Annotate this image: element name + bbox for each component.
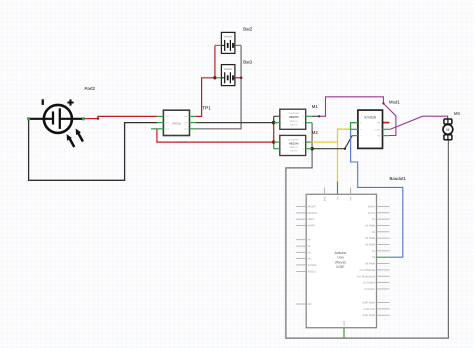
svg-text:M2: M2 <box>312 130 319 135</box>
svg-text:ICSP: ICSP <box>337 265 346 269</box>
Mod1 pin stubs (green) <box>351 123 391 136</box>
svg-text:D6 PWM: D6 PWM <box>365 244 375 247</box>
battery Bat2 <box>215 32 241 53</box>
svg-text:D5 PWM: D5 PWM <box>365 237 375 240</box>
svg-text:D12/MISO: D12/MISO <box>363 282 375 285</box>
bendpoint dot on red solar wire <box>97 117 99 119</box>
svg-text:GND: GND <box>343 320 346 326</box>
wire Bat2 left terminal down to junction (red) <box>214 45 216 77</box>
svg-text:VIN: VIN <box>349 196 352 200</box>
wire TP1 middle pin to M1 junction (dark gray) <box>196 122 274 124</box>
wire yellow junction down toward Arduino 5V (yellow) <box>337 142 339 181</box>
wire Arduino GND bottom pin to bottom bus (green) <box>343 328 345 338</box>
svg-text:(Rev3): (Rev3) <box>335 260 345 264</box>
module M1 <box>280 109 306 129</box>
svg-text:IOREF: IOREF <box>308 225 316 228</box>
svg-text:ICSP MISO: ICSP MISO <box>362 302 375 305</box>
solar cell terminals (green pins) <box>27 117 30 120</box>
vertical link M2 top-left to bottom-left pin (green) <box>273 142 275 149</box>
Arduino right pin rows <box>377 206 390 315</box>
svg-text:D13/SCK: D13/SCK <box>365 288 376 291</box>
wire M2 bottom-right junction to Mod1 bottom-left pin (black with diagonal) <box>312 136 352 149</box>
svg-text:NC: NC <box>377 122 381 125</box>
vertical link M1 top-left pin to junction (dark maroon) <box>273 116 275 122</box>
motor return net: M1 bottom-right down, around bottom, up to motor (gray) <box>286 123 449 338</box>
svg-text:Mod1: Mod1 <box>389 99 400 104</box>
svg-text:Arduino: Arduino <box>335 251 347 255</box>
wire Mod1 top-left pin link down to junction (green) <box>351 123 358 130</box>
svg-text:menu: menu <box>172 122 181 126</box>
wire Mod1 junction to Arduino D8 (blue) <box>351 129 403 257</box>
Arduino D8 pin stub (green, connected) <box>377 256 390 258</box>
svg-text:5B/3A S: 5B/3A S <box>289 120 298 123</box>
svg-text:1x6A 5v: 1x6A 5v <box>290 150 299 153</box>
wire solar-cell negative to TP1 pin (black) <box>29 120 158 181</box>
svg-text:D10 PWM/SS: D10 PWM/SS <box>360 269 376 272</box>
wire M1 top-right pin to relay Mod1 (purple) <box>319 97 396 136</box>
svg-text:3V3: 3V3 <box>323 196 326 201</box>
svg-text:Part2: Part2 <box>85 86 96 91</box>
light arrows of solar cell <box>67 129 83 148</box>
bendpoint dot on black wire <box>344 148 346 150</box>
Arduino top pins 3V3 5V VIN <box>325 188 351 195</box>
Arduino left pin rows <box>296 207 306 304</box>
svg-text:KY-019: KY-019 <box>365 115 376 119</box>
motor M3 <box>443 119 453 140</box>
junction dot at Bat3 left pin (red) <box>213 76 216 79</box>
svg-text:5V: 5V <box>336 196 339 199</box>
svg-text:A5/SCL: A5/SCL <box>308 270 317 273</box>
svg-text:AREF: AREF <box>308 218 315 221</box>
svg-text:Uno: Uno <box>337 256 343 260</box>
bendpoint dot at M1 top-right <box>318 115 320 117</box>
M1 pin stubs (green) <box>274 116 312 122</box>
svg-text:NO: NO <box>377 135 381 138</box>
svg-text:1x6A 5v: 1x6A 5v <box>290 123 299 126</box>
svg-text:HB25M: HB25M <box>289 141 299 145</box>
svg-text:Com1: Com1 <box>374 128 381 131</box>
battery Bat3 <box>216 65 241 86</box>
svg-text:M1: M1 <box>312 104 319 109</box>
junction dot red at M2 column <box>272 140 275 143</box>
svg-text:D3 PWM: D3 PWM <box>365 224 375 227</box>
svg-text:TP1: TP1 <box>202 105 211 110</box>
module M2 <box>280 135 306 155</box>
svg-text:RESET: RESET <box>308 206 317 209</box>
junction dot at M2 bottom-right pin (black) <box>310 147 313 150</box>
svg-text:HB25M: HB25M <box>289 115 299 119</box>
svg-text:N/C: N/C <box>308 303 313 306</box>
svg-text:ICSP SCK: ICSP SCK <box>363 308 375 311</box>
svg-text:D1/TX: D1/TX <box>368 212 375 215</box>
wire M2 top-right pin to yellow junction (yellow) <box>311 141 338 143</box>
wire yellow junction up to Mod1 middle-left pin (yellow) <box>338 129 351 142</box>
svg-text:D9 PWM: D9 PWM <box>365 263 375 266</box>
svg-text:M3: M3 <box>454 111 460 116</box>
svg-text:Baudot1: Baudot1 <box>390 176 407 181</box>
svg-text:Bat2: Bat2 <box>243 27 252 32</box>
svg-text:M: M <box>446 128 449 132</box>
wire Mod1 middle-right pin to motor M3 (magenta) <box>390 116 447 129</box>
vertical link junction to M2 top-left pin (red) <box>273 123 275 143</box>
test point box TP1 <box>163 110 189 135</box>
red stub at Mod1 top-right pin <box>383 122 389 124</box>
M2 pin stubs (green) <box>274 142 312 149</box>
TP1 pin stubs (green) <box>151 116 196 128</box>
wire Bat2 right terminal to TP1 lower pin (gray) <box>196 45 242 128</box>
dark lead from M1 top-right pin <box>312 115 319 117</box>
svg-text:9V6LR: 9V6LR <box>224 36 232 39</box>
wire TP1 to battery junction (red) <box>196 78 215 117</box>
svg-text:RESET2: RESET2 <box>308 212 318 215</box>
svg-text:9V6LR: 9V6LR <box>224 68 232 71</box>
svg-text:A4/SDA: A4/SDA <box>308 264 317 267</box>
svg-text:Bat3: Bat3 <box>243 59 252 64</box>
svg-text:ICSP MOSI: ICSP MOSI <box>362 314 375 317</box>
wire solar-cell positive to TP1 pin (red) <box>84 116 158 118</box>
solar cell Part2 <box>30 99 84 133</box>
Arduino Uno Baudot1 <box>306 194 376 327</box>
svg-text:D0/RX: D0/RX <box>368 205 376 208</box>
wire TP1 lower-left pin down to long red bus (red) <box>157 129 274 142</box>
wire segment to Arduino 5V pin (green) <box>337 181 339 194</box>
relay module Mod1 <box>358 110 383 148</box>
svg-text:5B/3A S: 5B/3A S <box>289 146 298 149</box>
junction dot dark maroon at M1 column <box>272 121 276 125</box>
svg-text:D11 PWM/MOSI: D11 PWM/MOSI <box>357 275 376 278</box>
junction dot at Bat3 right pin <box>240 77 243 80</box>
